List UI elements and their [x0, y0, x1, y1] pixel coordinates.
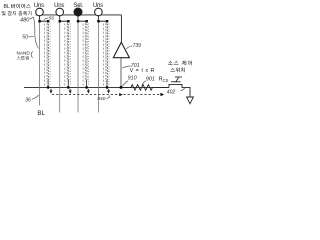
- svg-text:910: 910: [128, 76, 137, 82]
- svg-text:Uns: Uns: [54, 3, 64, 9]
- svg-text:RCS: RCS: [159, 77, 169, 83]
- svg-text:BL: BL: [37, 110, 45, 117]
- svg-text:901: 901: [146, 77, 155, 83]
- svg-text:V = I x R: V = I x R: [130, 68, 155, 74]
- svg-text:402: 402: [167, 90, 176, 96]
- svg-text:739: 739: [133, 43, 142, 49]
- svg-text:940: 940: [97, 96, 105, 102]
- svg-text:36: 36: [25, 97, 31, 103]
- svg-text:NAND: NAND: [17, 51, 31, 56]
- svg-text:50: 50: [22, 34, 28, 40]
- svg-text:Uns: Uns: [34, 3, 44, 9]
- svg-text:56: 56: [49, 15, 55, 20]
- svg-text:BL: BL: [4, 4, 10, 10]
- svg-text:Sel.: Sel.: [73, 3, 83, 9]
- svg-text:480: 480: [20, 17, 30, 23]
- svg-text:Uns: Uns: [93, 3, 103, 9]
